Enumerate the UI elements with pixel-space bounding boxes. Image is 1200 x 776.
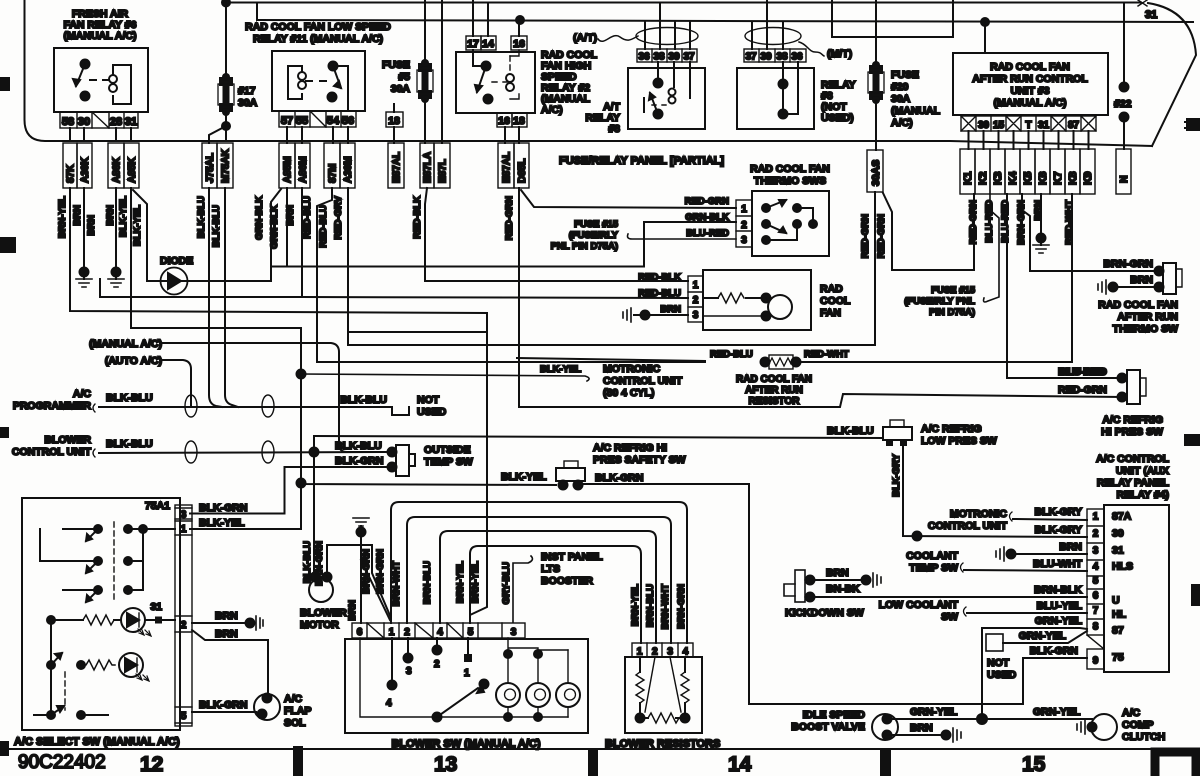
wire t2 BRN-WHT to res3 [407, 517, 671, 643]
control unit relay4 box [1104, 505, 1169, 672]
wires A/T up [645, 3, 690, 50]
wire t7 BLU-YEL [967, 612, 1087, 614]
svg-text:RED-WHT: RED-WHT [1064, 200, 1075, 245]
svg-text:87A: 87A [1112, 511, 1132, 523]
svg-text:D85L: D85L [517, 159, 528, 183]
svg-text:A86K: A86K [112, 157, 123, 183]
svg-text:31: 31 [150, 601, 162, 613]
svg-text:A/C: A/C [284, 693, 303, 705]
svg-text:30A: 30A [391, 83, 411, 95]
svg-text:A85K: A85K [127, 157, 138, 183]
blower resistors terminal row [632, 643, 693, 657]
connector D85L [514, 143, 529, 188]
svg-text:BLK-GRN: BLK-GRN [595, 472, 643, 484]
svg-text:OUTSIDE: OUTSIDE [424, 444, 471, 456]
svg-text:A30M: A30M [343, 156, 354, 183]
not used square [986, 634, 1003, 651]
svg-text:6: 6 [1093, 591, 1099, 602]
svg-text:16: 16 [498, 115, 510, 127]
svg-text:KICKDOWN SW: KICKDOWN SW [785, 607, 864, 619]
svg-text:FUSE #15: FUSE #15 [931, 285, 976, 296]
svg-text:K2: K2 [977, 171, 989, 185]
relay6 terminal row [60, 112, 138, 128]
svg-text:COOLANT: COOLANT [906, 550, 958, 562]
select sw row1 [94, 525, 102, 533]
wire t8b GRN-YEL not used [1003, 631, 1087, 643]
svg-text:39: 39 [668, 52, 680, 63]
svg-text:AFTER RUN CONTROL: AFTER RUN CONTROL [972, 73, 1088, 85]
svg-text:31: 31 [1038, 120, 1050, 131]
svg-text:2: 2 [1093, 529, 1099, 540]
svg-text:31: 31 [1112, 545, 1124, 557]
wire edge stub right top [1185, 122, 1200, 128]
svg-text:A/C REFRIG: A/C REFRIG [1102, 414, 1163, 426]
svg-text:(FUSE/RLY: (FUSE/RLY [569, 230, 619, 241]
svg-text:#22: #22 [1114, 98, 1132, 110]
A/T terminals [637, 49, 697, 62]
svg-text:BLOWER SW (MANUAL A/C): BLOWER SW (MANUAL A/C) [391, 738, 540, 750]
svg-text:3: 3 [1093, 546, 1099, 557]
svg-text:(A/T): (A/T) [573, 32, 597, 44]
svg-text:A85M: A85M [283, 156, 294, 183]
relay2 coil [510, 50, 519, 99]
wire t4 BRN-BLU to res2 [440, 531, 656, 643]
thermo sws terminals [736, 200, 752, 247]
wire top bus 1 [226, 2, 1141, 4]
select bus vertical [50, 620, 52, 715]
svg-text:BLK-YEL: BLK-YEL [199, 517, 245, 529]
not used connector [392, 407, 409, 415]
svg-text:RELAY #4): RELAY #4) [1116, 489, 1169, 501]
svg-text:BLK-GRY: BLK-GRY [891, 453, 902, 497]
A/C comp clutch [1091, 714, 1117, 740]
svg-text:BRN: BRN [215, 628, 238, 640]
wire K5 BRN ground [1040, 194, 1042, 238]
wire 30AS RED-GRN A [348, 192, 875, 345]
blower sw box [345, 639, 588, 733]
svg-text:55: 55 [296, 115, 308, 127]
svg-text:4: 4 [437, 627, 443, 638]
svg-text:BLOWER: BLOWER [300, 607, 347, 619]
svg-text:BRN-GRN: BRN-GRN [361, 549, 372, 594]
svg-text:MOTRONIC: MOTRONIC [950, 508, 1008, 520]
svg-text:FUSE: FUSE [891, 69, 919, 81]
terminal 18 [386, 112, 403, 127]
select dashed links [113, 522, 115, 600]
outside temp sw connector [396, 445, 409, 476]
svg-text:UNIT #3: UNIT #3 [1010, 85, 1049, 97]
kickdown switch [795, 570, 805, 602]
svg-text:13: 13 [434, 753, 457, 776]
svg-text:NOT: NOT [987, 657, 1010, 669]
svg-text:BLK-BLU: BLK-BLU [106, 392, 153, 404]
svg-text:RED-BLU: RED-BLU [318, 205, 329, 248]
svg-text:RED-GRN: RED-GRN [876, 214, 887, 258]
relay2 terminals top [466, 36, 527, 50]
svg-text:A/C): A/C) [891, 117, 913, 129]
wire BLK-YEL to safety sw [301, 483, 556, 485]
svg-text:15: 15 [993, 120, 1005, 131]
wire t6 BRN-BLK [812, 596, 1087, 598]
relay2 switch [473, 50, 486, 66]
svg-text:A/C REFRIG HI: A/C REFRIG HI [593, 442, 667, 454]
svg-text:#20: #20 [891, 81, 909, 93]
svg-text:PNL PIN D75A): PNL PIN D75A) [551, 241, 618, 252]
select terminal strip [175, 505, 192, 726]
svg-text:38: 38 [776, 52, 788, 63]
wire temp sw BLK-GRN [190, 467, 392, 514]
svg-text:A/C): A/C) [541, 104, 563, 116]
unit3 terminal row [961, 116, 1096, 131]
svg-text:SW: SW [941, 611, 958, 623]
svg-text:(MANUAL A/C): (MANUAL A/C) [89, 338, 162, 350]
svg-text:RAD COOL FAN: RAD COOL FAN [990, 61, 1070, 73]
tick bottom right corner [1155, 752, 1196, 776]
wire #22 [1123, 3, 1125, 88]
svg-text:BRN-YEL: BRN-YEL [455, 561, 466, 603]
wire safety BLK-GRN [583, 484, 1087, 704]
wire 87K BRN-YEL [70, 188, 487, 623]
svg-text:37: 37 [683, 52, 695, 63]
svg-text:U: U [1112, 595, 1120, 607]
svg-text:3: 3 [741, 235, 747, 246]
svg-text:MOTOR: MOTOR [300, 619, 339, 631]
svg-text:2: 2 [693, 295, 699, 306]
svg-text:31: 31 [125, 116, 137, 128]
wire blower control BLK-BLU [99, 452, 392, 453]
safety switch connector [556, 468, 585, 481]
wire A85M GRN-BLK [286, 188, 288, 267]
svg-text:BLK-GRY: BLK-GRY [1035, 524, 1082, 536]
svg-text:17: 17 [467, 38, 479, 50]
svg-text:1: 1 [181, 524, 187, 535]
A/T harness ellipse [636, 28, 698, 45]
svg-text:AFTER RUN: AFTER RUN [1117, 311, 1178, 323]
svg-text:BRN-YEL: BRN-YEL [470, 561, 481, 603]
svg-text:RED-GRN: RED-GRN [685, 196, 729, 207]
svg-text:RED-BLU: RED-BLU [710, 349, 753, 360]
svg-text:BLU-RED: BLU-RED [1058, 366, 1106, 378]
A/T interior [654, 79, 663, 88]
wire E87LA RED-BLK [425, 188, 688, 281]
svg-text:BLK-YEL: BLK-YEL [118, 196, 129, 237]
ground A86K [108, 279, 124, 287]
svg-text:FLAP: FLAP [284, 705, 311, 717]
svg-text:#8: #8 [608, 123, 620, 135]
wire K2 BLU-RED to fuse15 [984, 194, 1000, 302]
svg-text:TEMP SW: TEMP SW [909, 562, 958, 574]
wire idle BRN ground [887, 734, 946, 736]
svg-text:GRN-YEL: GRN-YEL [910, 706, 958, 718]
wire BLU-RED fuse15 [628, 234, 737, 239]
svg-text:BLK-YEL: BLK-YEL [132, 205, 143, 246]
wire K4 BRN-GRN [1022, 194, 1159, 271]
svg-text:BLK-GRN: BLK-GRN [199, 502, 247, 514]
stubs unit3 to K row [969, 131, 1089, 149]
wire t3 BRN ground [1011, 553, 1087, 555]
svg-text:30: 30 [978, 120, 990, 131]
svg-text:BLU-WHT: BLU-WHT [1033, 558, 1083, 570]
svg-text:5: 5 [468, 627, 474, 638]
wire t5 BRN-YEL to res1 [470, 546, 641, 643]
wires M/T up [752, 0, 783, 49]
svg-text:A/C SELECT SW (MANUAL A/C): A/C SELECT SW (MANUAL A/C) [14, 736, 180, 748]
svg-text:(MANUAL A/C): (MANUAL A/C) [64, 30, 137, 42]
svg-text:BLK-GRN: BLK-GRN [335, 455, 383, 467]
fuse F20 [875, 0, 877, 65]
wire diode out GRN-BLK [188, 222, 736, 281]
svg-text:BRN: BRN [826, 567, 849, 579]
wire programmer BLK-BLU [99, 406, 392, 408]
wire A86K BRN to ground [115, 188, 117, 272]
svg-text:K5: K5 [1022, 171, 1034, 185]
svg-text:K6: K6 [1037, 171, 1049, 185]
diode D1 [161, 268, 188, 295]
svg-text:GRN-BLK: GRN-BLK [254, 196, 265, 240]
tick left middle [0, 237, 16, 253]
svg-text:1: 1 [1093, 512, 1099, 523]
select LED row2 [47, 661, 55, 669]
svg-text:PIN D75A): PIN D75A) [929, 307, 975, 318]
bottom rule [0, 748, 1200, 750]
after run resistor [761, 358, 770, 367]
svg-text:87: 87 [1112, 625, 1124, 637]
svg-text:BRN-GRN: BRN-GRN [375, 549, 386, 594]
svg-text:BLU-RED: BLU-RED [1000, 200, 1011, 243]
wire BLK-YEL motronic [300, 328, 302, 374]
svg-text:BLK-GRN: BLK-GRN [199, 699, 247, 711]
svg-text:BLK-BLU: BLK-BLU [196, 196, 207, 238]
svg-text:A/C: A/C [1122, 707, 1141, 719]
motronic box top [517, 358, 705, 361]
control unit U3 rad cool fan after run box [953, 53, 1108, 115]
resistors interior [640, 657, 685, 718]
wire t3 GRY-BLU [513, 556, 532, 622]
wire bus link [256, 3, 258, 21]
svg-text:BRN-YEL: BRN-YEL [57, 196, 68, 238]
connector 87M [324, 143, 340, 188]
blower resistors box [625, 657, 702, 733]
wire A30M RED-GRV [348, 188, 487, 345]
connector 30AS [867, 150, 883, 192]
svg-text:BRN-BLU: BRN-BLU [645, 584, 656, 627]
wire motor BRN-GRN [327, 545, 391, 623]
svg-text:BRN-WHT: BRN-WHT [660, 584, 671, 630]
svg-text:USED): USED) [821, 112, 854, 124]
fuse F17 [225, 3, 227, 78]
svg-text:BLK-BLU: BLK-BLU [335, 440, 382, 452]
svg-text:K9: K9 [1082, 171, 1094, 185]
svg-text:3: 3 [693, 310, 699, 321]
relay11 coil [288, 66, 302, 99]
svg-text:FUSE/RELAY PANEL [PARTIAL]: FUSE/RELAY PANEL [PARTIAL] [559, 155, 724, 167]
svg-text:6: 6 [357, 627, 363, 638]
svg-text:7: 7 [1093, 606, 1099, 617]
svg-text:UNIT (AUX: UNIT (AUX [1116, 465, 1169, 477]
svg-text:BOOSTER: BOOSTER [541, 575, 593, 587]
svg-text:5: 5 [181, 711, 187, 722]
svg-text:A/C: A/C [73, 388, 92, 400]
svg-text:THERMO SW: THERMO SW [1113, 323, 1178, 335]
svg-text:T: T [1025, 120, 1031, 131]
svg-text:14: 14 [728, 753, 752, 776]
svg-text:12: 12 [140, 753, 163, 776]
svg-text:BRN: BRN [1059, 541, 1082, 553]
svg-text:K4: K4 [1007, 171, 1019, 185]
low pres switch connector [883, 427, 912, 440]
relay A/T box [628, 68, 705, 129]
harness ellipse 2 [262, 395, 274, 417]
svg-text:1: 1 [464, 668, 470, 679]
svg-text:4: 4 [386, 698, 392, 709]
svg-text:9: 9 [1093, 656, 1099, 667]
connector E87LA [420, 143, 434, 188]
harness ellipse 1 [185, 395, 197, 417]
svg-text:A30K: A30K [80, 157, 91, 183]
M/T harness ellipse [745, 28, 801, 45]
wire M75AK BLK-BLU [225, 188, 238, 407]
svg-text:RED-GRN: RED-GRN [1058, 384, 1107, 396]
connector A85M [279, 143, 295, 188]
ground blower top [353, 518, 369, 526]
svg-text:IDLE SPEED: IDLE SPEED [803, 709, 866, 721]
M/T terminals [744, 49, 806, 62]
connector box top [832, 0, 953, 37]
harness ellipse 4 [262, 441, 274, 463]
svg-text:8: 8 [1093, 622, 1099, 633]
svg-text:BLK-BLU: BLK-BLU [827, 425, 874, 437]
svg-text:39: 39 [760, 52, 772, 63]
svg-text:36: 36 [791, 52, 803, 63]
svg-text:RELAY #11 (MANUAL A/C): RELAY #11 (MANUAL A/C) [253, 33, 383, 45]
A/C select switch box [22, 498, 180, 730]
svg-text:COMP: COMP [1122, 719, 1154, 731]
svg-text:RAD COOL FAN: RAD COOL FAN [750, 163, 830, 175]
svg-text:GRN-YEL: GRN-YEL [1035, 615, 1083, 627]
relay11 terminal row [279, 111, 356, 127]
svg-text:BRN-BLK: BRN-BLK [1034, 584, 1082, 596]
connector E87L [434, 143, 450, 188]
svg-text:INST PANEL: INST PANEL [541, 551, 603, 563]
svg-text:RELAY PANEL: RELAY PANEL [1097, 477, 1170, 489]
svg-text:E87AL: E87AL [502, 152, 513, 183]
svg-text:BRN: BRN [660, 304, 681, 315]
wire D85L RED-GRN branch thermo [521, 190, 736, 208]
svg-text:FUSE: FUSE [382, 59, 410, 71]
svg-text:TEMP SW: TEMP SW [424, 456, 473, 468]
connector A86K [108, 143, 124, 188]
blower sw lamps [360, 638, 568, 717]
svg-text:BN-BK: BN-BK [826, 583, 860, 595]
svg-text:USED: USED [987, 669, 1017, 681]
ground radfan3 [634, 314, 645, 316]
svg-text:87M: 87M [328, 164, 339, 183]
wire 30AS RED-GRN B [883, 193, 974, 270]
svg-text:5: 5 [1093, 576, 1099, 587]
svg-text:BRN: BRN [1033, 200, 1044, 221]
svg-text:BLOWER RESISTORS: BLOWER RESISTORS [605, 738, 720, 750]
wire stubs relay6 to connectors [70, 128, 131, 141]
svg-text:BRN-GRN: BRN-GRN [676, 584, 687, 629]
after run thermo sw connector [1163, 263, 1176, 294]
relay2 terminals bottom [497, 113, 527, 127]
svg-text:BLK-YEL: BLK-YEL [501, 471, 547, 483]
svg-text:BLK-GRY: BLK-GRY [1035, 506, 1082, 518]
svg-text:1: 1 [389, 627, 395, 638]
wire K3 BLU-RED [1007, 194, 1120, 378]
svg-text:RAD COOL FAN LOW SPEED: RAD COOL FAN LOW SPEED [245, 21, 391, 33]
svg-text:BLK-BLU: BLK-BLU [340, 394, 387, 406]
svg-text:LTS: LTS [541, 563, 560, 575]
svg-text:2: 2 [181, 620, 187, 631]
node junction unit3 [981, 18, 989, 26]
svg-text:36: 36 [638, 52, 650, 63]
wire A86M BRN [100, 188, 302, 297]
svg-text:75: 75 [1112, 652, 1124, 664]
radfan motor [768, 295, 792, 319]
svg-text:RED-GRN: RED-GRN [860, 214, 871, 258]
svg-text:BRN: BRN [72, 205, 83, 226]
svg-text:30A: 30A [238, 97, 258, 109]
svg-text:15: 15 [1022, 753, 1046, 776]
select sw row3 [94, 586, 102, 594]
node X end [1138, 0, 1147, 6]
svg-text:1: 1 [637, 647, 643, 658]
hi pres sw connector [1127, 370, 1140, 404]
svg-text:54: 54 [327, 115, 340, 127]
svg-text:THERMO SWS: THERMO SWS [754, 175, 826, 187]
svg-text:K8: K8 [1067, 171, 1079, 185]
svg-text:FAN: FAN [820, 307, 841, 319]
svg-text:(M/T): (M/T) [827, 48, 852, 60]
wire A86M to radfan2 [302, 297, 688, 298]
svg-text:GRN-YEL: GRN-YEL [1019, 630, 1067, 642]
svg-text:PRES SAFETY SW: PRES SAFETY SW [593, 454, 686, 466]
svg-text:RAD COOL FAN: RAD COOL FAN [1098, 299, 1178, 311]
wire GRN-YEL long [981, 628, 983, 719]
svg-text:RED-BLK: RED-BLK [638, 272, 681, 283]
connector M75AK [217, 143, 233, 188]
connector 87K [63, 143, 77, 188]
wire top bus 2 [257, 20, 1193, 22]
wire t1 BLK-GRY [1013, 519, 1087, 520]
harness ellipse 3 [185, 441, 197, 463]
svg-text:E87AL: E87AL [392, 152, 403, 183]
svg-text:FUSE #15: FUSE #15 [574, 219, 619, 230]
svg-text:30A: 30A [891, 93, 911, 105]
radfan terminals [688, 276, 703, 322]
tick bottom 3 [880, 750, 891, 776]
svg-text:K7: K7 [1052, 171, 1064, 185]
wire 87M RED-BLU [317, 188, 705, 362]
svg-text:PROGRAMMER: PROGRAMMER [13, 400, 92, 412]
wire auto a/c [163, 360, 191, 407]
svg-text:#5: #5 [398, 71, 410, 83]
fuse/relay panel outline top-right curve [1148, 3, 1196, 146]
svg-text:GRN-YEL: GRN-YEL [1033, 706, 1081, 718]
svg-text:E87LA: E87LA [423, 152, 434, 183]
M/T interior [779, 80, 788, 89]
connector A30K [77, 143, 92, 188]
svg-text:RED-BLU: RED-BLU [638, 288, 681, 299]
svg-text:CONTROL UNIT: CONTROL UNIT [603, 375, 683, 387]
svg-text:30: 30 [1112, 528, 1124, 540]
svg-text:30AS: 30AS [870, 160, 882, 186]
wire t5 BLK-GRN flap sol [192, 711, 256, 713]
relay K6 fresh air fan box [54, 48, 148, 112]
ground A30K [76, 279, 92, 287]
svg-text:DIODE: DIODE [160, 255, 193, 267]
